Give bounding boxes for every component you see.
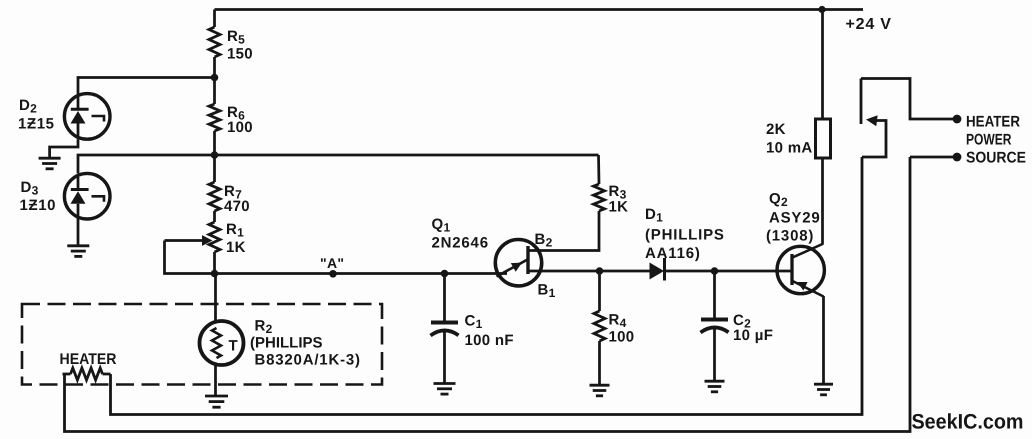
wire node A line to Q1 emitter <box>215 272 508 275</box>
resistor R5 150 <box>209 10 253 78</box>
svg-text:HEATER: HEATER <box>966 114 1020 131</box>
svg-text:ASY29: ASY29 <box>769 210 821 227</box>
svg-text:(PHILLIPS: (PHILLIPS <box>250 335 323 352</box>
node junction dot on +24V rail <box>818 6 825 13</box>
svg-text:1Ƶ10: 1Ƶ10 <box>20 197 57 214</box>
potentiometer R1 1K <box>209 221 246 274</box>
node junction R6/R7/D3 rail <box>211 151 219 159</box>
svg-text:+24 V: +24 V <box>846 16 892 33</box>
svg-text:(1308): (1308) <box>766 228 814 245</box>
transistor Q1 2N2646 unijunction <box>432 216 542 286</box>
node junction C1 tap <box>441 270 449 278</box>
wire R1 wiper to bottom node <box>165 241 215 274</box>
wire mid rail from D3 to R3 <box>78 155 599 173</box>
diode D1 PHILLIPS AA116 <box>645 206 725 281</box>
zener diode D2 1Z15 <box>18 94 110 140</box>
svg-text:SOURCE: SOURCE <box>966 150 1026 167</box>
wire +24V top supply rail <box>215 8 864 11</box>
wire D1 cathode to Q2 base <box>665 270 791 273</box>
svg-text:"A": "A" <box>320 255 344 271</box>
ground for R2 <box>205 395 228 398</box>
wire junction to zener D2 cathode <box>78 78 215 96</box>
ground for R4 <box>590 384 610 387</box>
node junction R5/R6/D2 <box>211 74 219 82</box>
wire Q1 B1 to D1 anode <box>528 270 650 273</box>
node A <box>329 270 337 278</box>
svg-text:1K: 1K <box>226 239 246 256</box>
node junction R3/R4 tap <box>596 267 604 275</box>
wire D2 anode to ground <box>50 139 78 158</box>
wire relay top bracket <box>861 79 954 120</box>
wire Q2 collector to 2K resistor <box>821 158 824 245</box>
svg-text:2K: 2K <box>766 121 786 138</box>
wire source line to heater left lead <box>65 157 911 432</box>
svg-text:100: 100 <box>609 329 635 346</box>
svg-text:470: 470 <box>224 198 250 215</box>
wire Q1 B2 to R3 <box>529 211 599 251</box>
relay contact movable arm arrow <box>866 115 878 126</box>
svg-text:(PHILLIPS: (PHILLIPS <box>645 227 725 244</box>
svg-text:HEATER: HEATER <box>60 351 117 368</box>
zener diode D3 1Z10 <box>20 173 110 219</box>
svg-text:150: 150 <box>227 46 253 63</box>
resistor HEATER element <box>60 351 117 380</box>
dashed enclosure oven box <box>22 304 382 385</box>
resistor R6 100 <box>209 78 253 156</box>
node junction C2 tap <box>711 267 719 275</box>
capacitor C1 100 nF <box>431 274 514 384</box>
wire relay arm tail <box>862 121 886 158</box>
thermistor R2 PHILLIPS B8320A/1K-3 <box>200 274 361 397</box>
svg-text:1K: 1K <box>609 199 629 216</box>
wiper arrow of R1 <box>165 239 203 242</box>
svg-text:AA116): AA116) <box>645 245 701 262</box>
svg-text:100: 100 <box>227 119 253 136</box>
resistor 2K 10 mA relay coil <box>766 10 831 159</box>
svg-text:2N2646: 2N2646 <box>432 235 489 252</box>
ground for D2 <box>39 157 61 160</box>
transistor Q2 ASY29 (1308) <box>766 191 824 297</box>
ground for Q2 emitter <box>814 383 833 386</box>
svg-text:POWER: POWER <box>966 132 1012 149</box>
svg-text:100 nF: 100 nF <box>465 332 514 349</box>
svg-text:10 mA: 10 mA <box>766 140 813 157</box>
wire D3 anode to ground <box>77 219 80 246</box>
wire source branch to terminal <box>910 156 954 159</box>
wire relay arm to heater right lead <box>111 157 863 415</box>
terminal dot SOURCE <box>953 153 962 162</box>
svg-text:SeekIC.com: SeekIC.com <box>912 411 1024 434</box>
relay contact fixed stub <box>860 79 863 125</box>
resistor R4 100 <box>594 271 634 385</box>
label HEATER POWER SOURCE <box>966 114 1026 167</box>
ground for C1 <box>434 382 456 385</box>
svg-text:10 µF: 10 µF <box>733 327 773 344</box>
svg-text:B8320A/1K-3): B8320A/1K-3) <box>255 352 361 369</box>
svg-text:T: T <box>229 338 238 355</box>
node junction R1/R2 on signal line <box>211 270 219 278</box>
resistor R7 470 <box>209 155 250 222</box>
wire Q2 emitter to ground <box>822 296 825 384</box>
ground for D3 <box>67 244 89 247</box>
resistor R3 1K <box>594 155 629 216</box>
ground for C2 <box>705 380 725 383</box>
terminal dot HEATER <box>953 115 962 124</box>
capacitor C2 10 uF <box>701 271 774 381</box>
svg-text:1Ƶ15: 1Ƶ15 <box>18 116 55 133</box>
